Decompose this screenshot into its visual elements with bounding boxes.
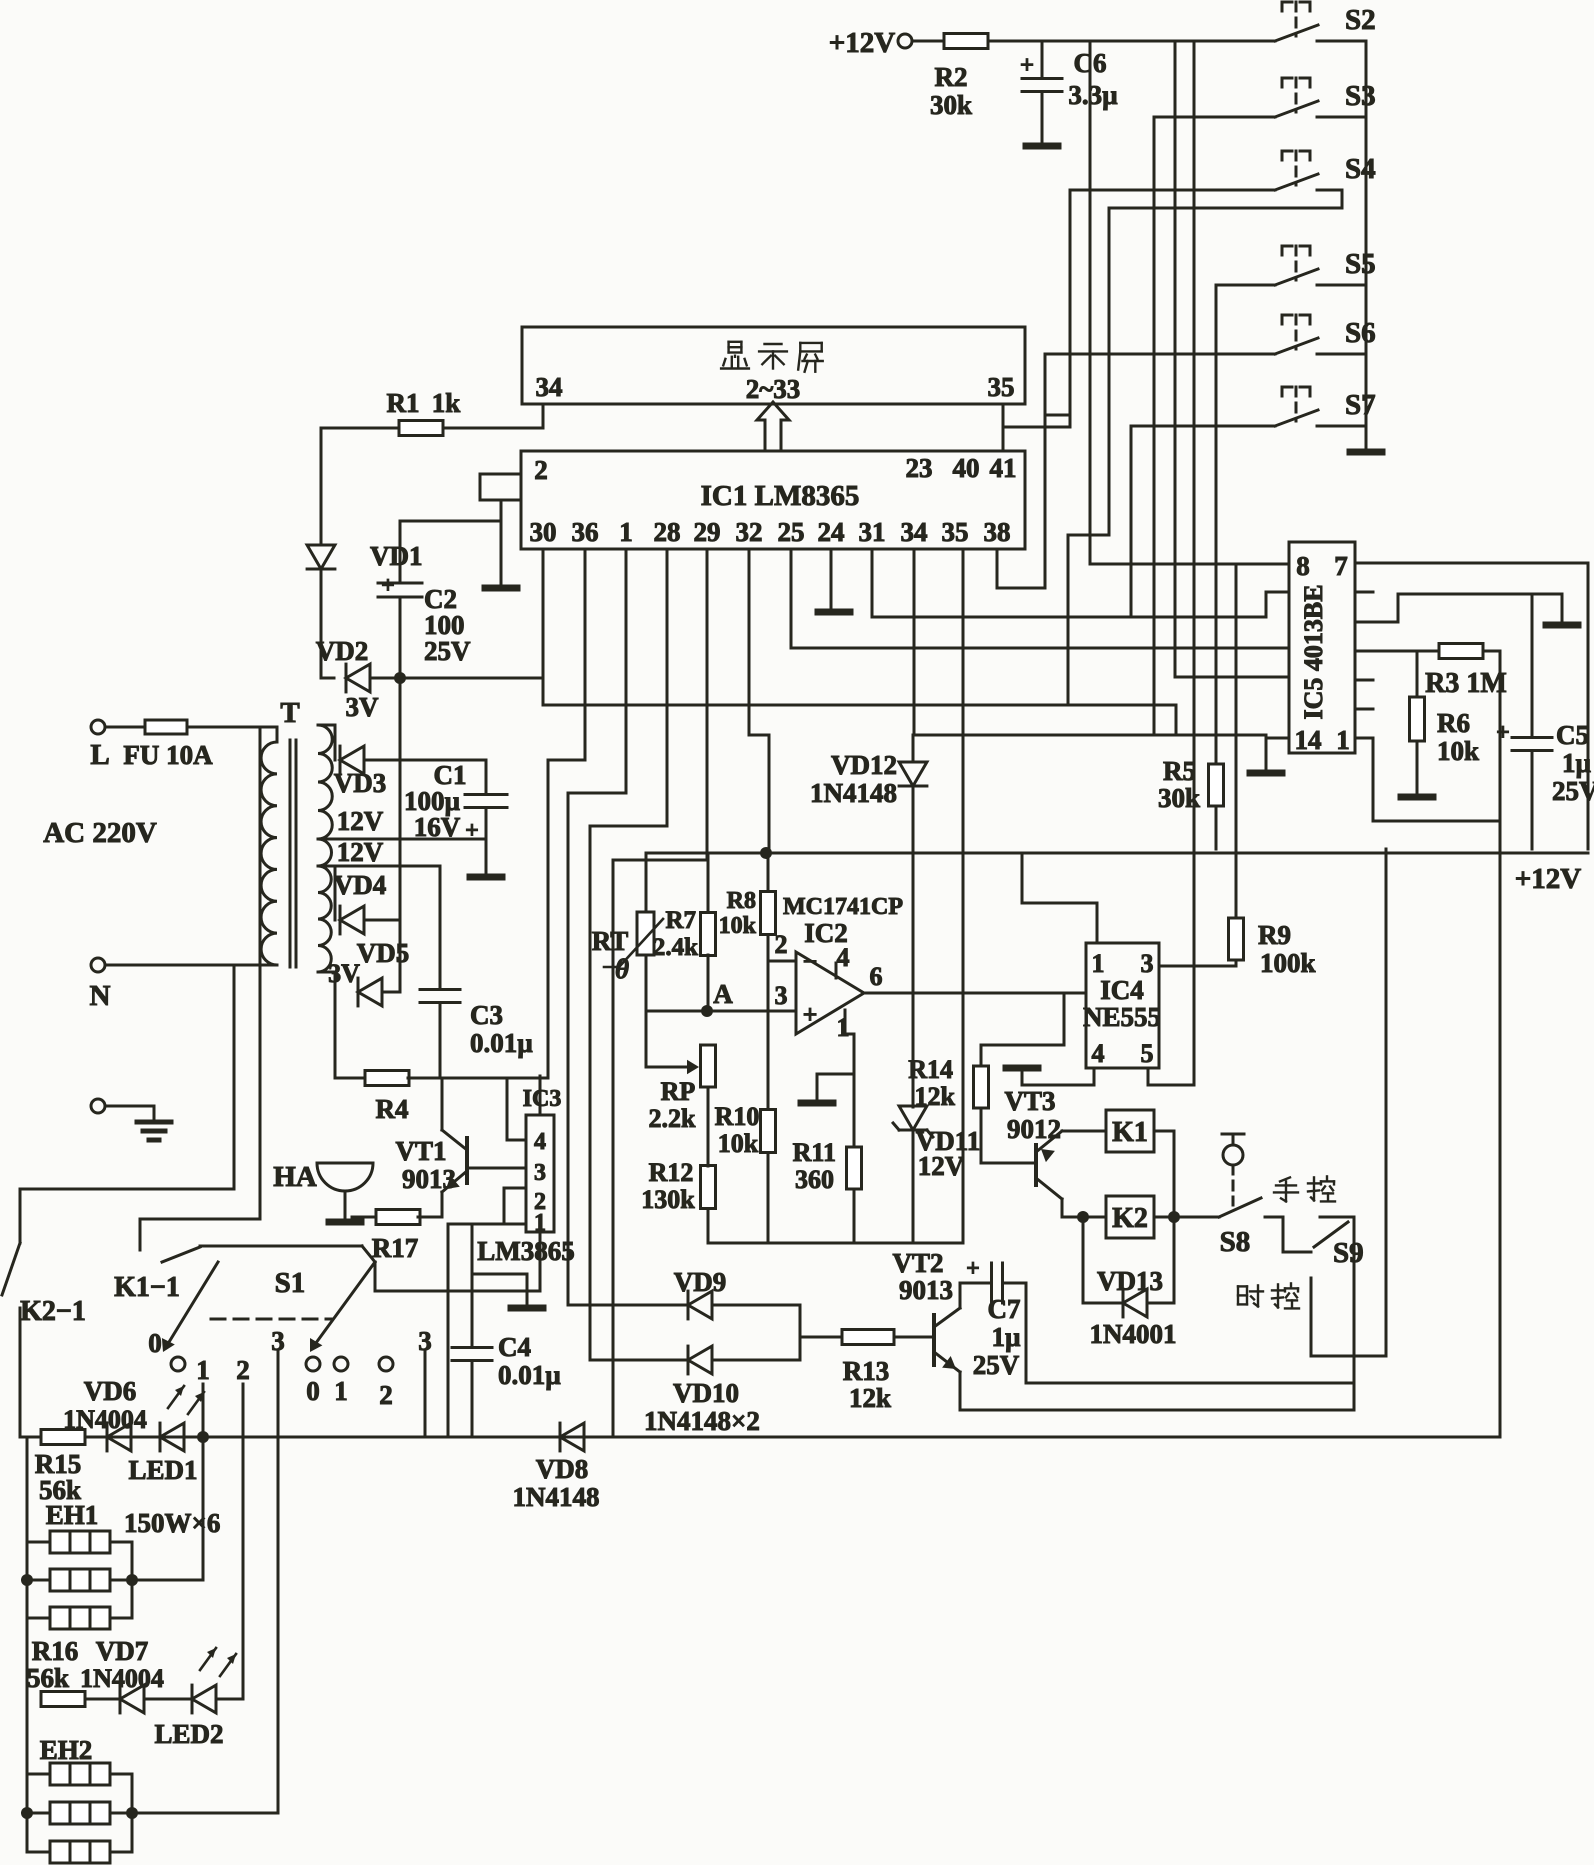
svg-text:0.01µ: 0.01µ (470, 1028, 533, 1058)
svg-text:2: 2 (379, 1380, 393, 1410)
svg-text:R10: R10 (715, 1102, 760, 1131)
svg-text:C5: C5 (1556, 720, 1589, 750)
svg-text:10k: 10k (719, 913, 757, 939)
svg-text:+: + (381, 573, 395, 599)
svg-text:3: 3 (1141, 949, 1154, 978)
svg-text:34: 34 (536, 372, 563, 402)
svg-text:S7: S7 (1345, 389, 1376, 421)
svg-text:R4: R4 (376, 1094, 409, 1124)
svg-text:R12: R12 (649, 1158, 694, 1187)
svg-text:9013: 9013 (402, 1164, 456, 1194)
svg-text:FU 10A: FU 10A (123, 740, 213, 770)
svg-text:5: 5 (1141, 1039, 1154, 1068)
svg-text:S9: S9 (1333, 1237, 1364, 1269)
svg-text:12k: 12k (849, 1383, 891, 1413)
svg-text:RT: RT (592, 926, 629, 956)
svg-text:12k: 12k (915, 1082, 956, 1111)
svg-text:S2: S2 (1345, 4, 1376, 36)
svg-text:EH1: EH1 (46, 1500, 99, 1530)
svg-text:12V: 12V (918, 1151, 965, 1181)
svg-text:2.4k: 2.4k (653, 934, 698, 961)
svg-text:3.3µ: 3.3µ (1068, 80, 1118, 110)
svg-text:1: 1 (1092, 949, 1105, 978)
svg-text:2.2k: 2.2k (649, 1104, 697, 1133)
svg-text:9013: 9013 (899, 1275, 953, 1305)
svg-text:35: 35 (942, 517, 969, 547)
svg-text:+: + (465, 818, 479, 844)
svg-text:29: 29 (694, 517, 721, 547)
svg-text:3V: 3V (328, 959, 360, 988)
svg-text:3: 3 (775, 981, 788, 1010)
svg-text:3V: 3V (346, 692, 380, 722)
svg-text:R17: R17 (372, 1233, 419, 1263)
svg-text:R1: R1 (387, 388, 420, 418)
svg-text:R2: R2 (935, 62, 968, 92)
svg-text:R9: R9 (1258, 920, 1291, 950)
svg-text:S1: S1 (275, 1267, 306, 1299)
svg-text:R14: R14 (908, 1055, 953, 1084)
svg-text:100k: 100k (1260, 948, 1316, 978)
svg-text:C7: C7 (988, 1294, 1021, 1324)
svg-text:40: 40 (953, 453, 980, 483)
svg-text:R5: R5 (1163, 756, 1196, 786)
svg-text:1µ: 1µ (991, 1322, 1021, 1352)
svg-text:HA: HA (273, 1161, 317, 1193)
svg-text:2: 2 (775, 930, 788, 959)
svg-text:4: 4 (534, 1129, 546, 1155)
svg-text:K2: K2 (1112, 1203, 1148, 1234)
svg-text:NE555: NE555 (1083, 1002, 1161, 1032)
svg-text:VD12: VD12 (831, 750, 897, 780)
svg-text:R16: R16 (32, 1636, 79, 1666)
svg-text:VD7: VD7 (96, 1636, 149, 1666)
svg-text:1: 1 (196, 1355, 210, 1385)
svg-text:130k: 130k (641, 1185, 695, 1214)
svg-text:K1−1: K1−1 (114, 1272, 180, 1303)
svg-text:K2−1: K2−1 (20, 1296, 86, 1327)
svg-text:12V: 12V (337, 806, 384, 836)
svg-text:25V: 25V (424, 636, 471, 666)
svg-text:31: 31 (859, 517, 886, 547)
svg-text:+: + (803, 1000, 818, 1029)
svg-text:34: 34 (901, 517, 928, 547)
svg-text:LED2: LED2 (154, 1719, 223, 1749)
svg-text:4: 4 (1092, 1039, 1105, 1068)
svg-text:36: 36 (572, 517, 599, 547)
svg-text:θ: θ (615, 954, 629, 984)
svg-text:K1: K1 (1112, 1117, 1148, 1148)
svg-text:1: 1 (1336, 725, 1350, 755)
svg-text:−: − (803, 947, 818, 976)
svg-text:N: N (90, 980, 111, 1012)
svg-text:150W×6: 150W×6 (124, 1508, 220, 1538)
svg-text:1N4148: 1N4148 (810, 778, 897, 808)
svg-text:+12V: +12V (829, 27, 896, 59)
svg-text:8: 8 (1296, 551, 1310, 581)
svg-text:C3: C3 (470, 1000, 503, 1030)
svg-text:VD6: VD6 (84, 1376, 137, 1406)
svg-text:VT2: VT2 (892, 1248, 943, 1278)
svg-text:LED1: LED1 (128, 1455, 197, 1485)
svg-text:VD10: VD10 (673, 1378, 739, 1408)
svg-text:S3: S3 (1345, 80, 1376, 112)
svg-text:360: 360 (795, 1165, 834, 1194)
svg-text:1N4148: 1N4148 (513, 1482, 600, 1512)
svg-text:IC5 4013BE: IC5 4013BE (1299, 584, 1328, 719)
svg-text:+: + (1020, 52, 1034, 79)
svg-text:VT1: VT1 (395, 1136, 446, 1166)
svg-text:R7: R7 (665, 907, 696, 934)
svg-text:EH2: EH2 (40, 1735, 93, 1765)
svg-text:1: 1 (619, 517, 633, 547)
svg-text:VT3: VT3 (1004, 1086, 1055, 1116)
svg-text:28: 28 (654, 517, 681, 547)
svg-text:30k: 30k (1158, 783, 1200, 813)
svg-text:R8: R8 (727, 888, 756, 914)
svg-text:VD9: VD9 (674, 1267, 727, 1297)
svg-text:VD13: VD13 (1097, 1266, 1163, 1296)
svg-text:25V: 25V (973, 1350, 1020, 1380)
svg-text:24: 24 (818, 517, 845, 547)
svg-text:+: + (1496, 720, 1510, 746)
svg-text:IC1 LM8365: IC1 LM8365 (701, 480, 860, 512)
svg-text:1: 1 (334, 1376, 348, 1406)
svg-text:30k: 30k (930, 90, 972, 120)
svg-text:R6: R6 (1437, 708, 1470, 738)
svg-text:LM3865: LM3865 (477, 1236, 575, 1266)
svg-text:VD8: VD8 (536, 1454, 589, 1484)
svg-text:10k: 10k (718, 1129, 759, 1158)
svg-text:25V: 25V (1552, 776, 1594, 806)
svg-text:IC4: IC4 (1100, 975, 1144, 1005)
svg-text:38: 38 (984, 517, 1011, 547)
svg-text:1: 1 (837, 1013, 850, 1042)
svg-text:R3 1M: R3 1M (1425, 668, 1507, 699)
svg-text:16V: 16V (414, 812, 461, 842)
svg-text:R11: R11 (793, 1138, 836, 1167)
svg-text:VD3: VD3 (334, 768, 387, 798)
svg-text:32: 32 (736, 517, 763, 547)
svg-text:35: 35 (988, 372, 1015, 402)
svg-text:3: 3 (534, 1160, 546, 1186)
svg-text:12V: 12V (337, 837, 384, 867)
svg-text:T: T (280, 697, 299, 729)
svg-text:7: 7 (1334, 551, 1348, 581)
svg-text:41: 41 (990, 453, 1017, 483)
svg-text:R13: R13 (843, 1356, 890, 1386)
svg-text:S4: S4 (1345, 153, 1376, 185)
svg-text:23: 23 (906, 453, 933, 483)
svg-text:AC 220V: AC 220V (43, 817, 157, 849)
svg-text:L: L (90, 739, 109, 771)
svg-text:C4: C4 (498, 1332, 531, 1362)
svg-text:6: 6 (870, 962, 883, 991)
svg-text:IC3: IC3 (523, 1086, 562, 1112)
svg-text:14: 14 (1295, 725, 1322, 755)
svg-text:A: A (713, 979, 733, 1009)
svg-text:10k: 10k (1437, 736, 1479, 766)
svg-text:S5: S5 (1345, 248, 1376, 280)
svg-text:+12V: +12V (1515, 863, 1582, 895)
svg-text:0: 0 (148, 1328, 162, 1358)
svg-text:0: 0 (306, 1376, 320, 1406)
svg-text:S6: S6 (1345, 317, 1376, 349)
svg-text:1N4001: 1N4001 (1090, 1319, 1177, 1349)
svg-text:MC1741CP: MC1741CP (783, 894, 903, 920)
svg-text:VD2: VD2 (316, 636, 369, 666)
svg-text:1N4004: 1N4004 (63, 1405, 147, 1434)
svg-text:1k: 1k (432, 388, 461, 418)
svg-text:VD4: VD4 (334, 870, 387, 900)
svg-text:25: 25 (778, 517, 805, 547)
svg-text:2~33: 2~33 (746, 374, 801, 404)
svg-text:S8: S8 (1220, 1226, 1251, 1258)
svg-text:56k: 56k (27, 1663, 69, 1693)
svg-text:1N4004: 1N4004 (80, 1664, 164, 1693)
svg-text:IC2: IC2 (804, 918, 848, 948)
svg-text:0.01µ: 0.01µ (498, 1360, 561, 1390)
svg-text:1N4148×2: 1N4148×2 (644, 1406, 760, 1436)
svg-text:2: 2 (236, 1355, 250, 1385)
svg-text:VD1: VD1 (370, 541, 423, 571)
svg-text:+: + (966, 1256, 980, 1282)
svg-text:2: 2 (534, 455, 548, 485)
svg-text:RP: RP (661, 1077, 696, 1106)
svg-text:1µ: 1µ (1562, 748, 1592, 778)
svg-text:30: 30 (530, 517, 557, 547)
